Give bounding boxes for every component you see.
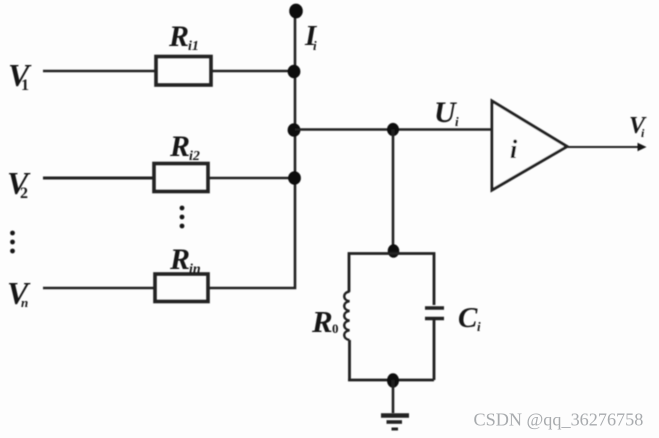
wire R0 to bottom rail [348,340,351,380]
svg-text:i: i [455,114,459,129]
svg-text:R: R [168,20,189,53]
svg-text:R: R [169,243,190,276]
wire V2 to Ri2 [43,177,154,180]
label R0 [311,304,339,339]
junction dot V2-bus [288,171,301,185]
capacitor Ci top plate [425,306,444,310]
svg-text:C: C [458,302,478,334]
wire op-amp output [567,146,643,148]
node Vn label [7,275,31,311]
junction dot bus-output [288,123,301,137]
resistor Rin [155,274,208,302]
svg-text:U: U [434,96,457,129]
wire RC top rail [349,254,434,306]
svg-text:R: R [169,130,190,163]
svg-text:CSDN @qq_36276758: CSDN @qq_36276758 [474,410,644,430]
junction dot RC top [388,244,400,258]
wire RC bottom rail [348,379,434,382]
label i (op-amp gain) [510,135,518,164]
svg-text:1: 1 [21,77,29,94]
svg-text:n: n [21,295,28,310]
svg-text:i1: i1 [188,39,199,54]
svg-text:i: i [510,135,518,164]
capacitor Ci bottom plate [425,317,444,321]
wire Vn to Rin [43,287,155,290]
ground [381,416,409,430]
junction dot feedback tap [387,123,399,136]
label Ri2 [169,130,200,164]
label Ri1 [168,20,199,54]
label Vi output [629,113,647,140]
ellipsis dots left [10,231,15,254]
arrowhead output [638,143,647,151]
label Ci [458,302,481,334]
resistor Ri1 [156,57,211,86]
wire to ground [392,380,395,413]
label Rin [169,243,201,277]
label Ui [434,96,459,129]
node V1 label [8,57,32,94]
wire V1 to Ri1 [43,70,156,73]
svg-text:i: i [313,38,317,53]
ellipsis dots middle [180,206,185,229]
label Ii [304,20,318,53]
svg-text:R: R [311,304,333,339]
svg-text:i: i [477,319,481,334]
wire Ci to bottom rail [433,320,436,380]
svg-text:2: 2 [20,185,28,202]
wire bus to op-amp input [295,128,492,131]
svg-text:0: 0 [332,321,339,336]
resistor R0 (wavy) [344,292,349,341]
node input terminal dot [289,4,303,19]
svg-text:in: in [189,262,201,277]
resistor Ri2 [154,164,208,192]
svg-text:i2: i2 [189,149,200,164]
junction dot V1-bus [288,65,301,79]
wire Ri2 to bus [208,177,296,180]
wire tap down to RC network [392,130,395,253]
op-amp U1 [492,101,567,190]
wire summing bus [294,11,297,179]
wire Rin to bus corner [208,178,295,288]
junction dot RC bottom [387,373,399,387]
node V2 label [7,165,31,202]
wire Ri1 to bus [211,70,296,73]
